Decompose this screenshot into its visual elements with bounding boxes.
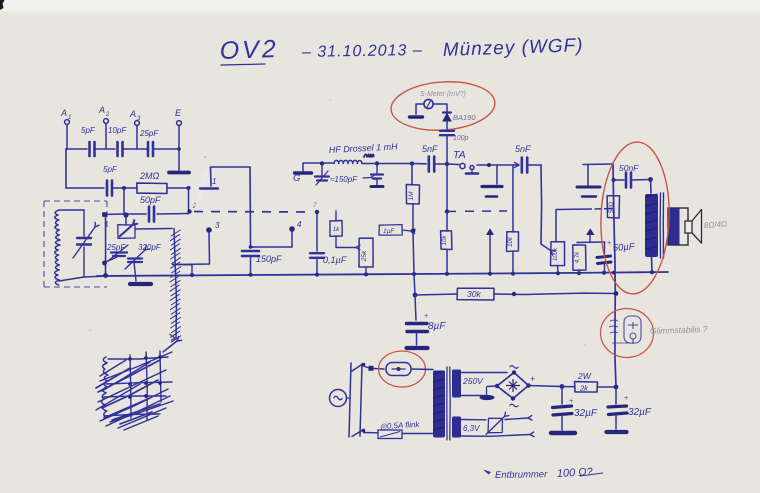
coupling 1uF slanted box (379, 225, 402, 236)
capacitor 5pF row2 (106, 181, 109, 196)
fuse Si1 (386, 363, 411, 376)
capacitor 50nF (614, 179, 625, 181)
svg-text:5pF: 5pF (81, 126, 96, 135)
svg-text:100p: 100p (453, 135, 469, 142)
speaker cone (692, 210, 702, 244)
svg-text:S-Meter (mV?): S-Meter (mV?) (420, 91, 466, 98)
grid cap contact triangle first (486, 228, 494, 235)
resistor 2M ohm (137, 183, 167, 193)
ground branch before 5nF2 (496, 165, 498, 184)
svg-text:TA: TA (453, 149, 466, 161)
contact 3 (206, 227, 212, 233)
B+ wire from bridge (529, 386, 563, 387)
red circle around fuse (379, 351, 426, 387)
wire to volume drop (528, 164, 542, 166)
wire row2 (66, 187, 104, 189)
coil construction sketch scribble (102, 357, 108, 417)
svg-text:1k: 1k (333, 226, 341, 233)
svg-text:2: 2 (105, 112, 110, 118)
svg-text:320pF: 320pF (138, 243, 162, 252)
main top wire to 5nF (362, 163, 412, 165)
switch blade bottom (352, 430, 364, 437)
svg-text:3: 3 (215, 221, 220, 230)
shield line foot arrow (170, 334, 176, 341)
capacitor 100p (440, 130, 454, 132)
hum pot (488, 418, 503, 433)
transformer core lines (659, 193, 661, 258)
wire A1 down (65, 149, 67, 188)
svg-text:≈150pF: ≈150pF (330, 175, 358, 184)
corner mark (0, 0, 5, 10)
wire (167, 187, 189, 189)
resistor 1k grid (335, 211, 337, 221)
wire 30k to B+ (494, 293, 616, 294)
wire row2-node to 50pF row (104, 213, 124, 216)
svg-text:5pF: 5pF (103, 165, 118, 174)
wire diode to cap (446, 121, 448, 129)
svg-text:150pF: 150pF (256, 254, 282, 264)
arrow 1k to 25k (335, 236, 337, 247)
resistor 1M anode (411, 164, 413, 185)
svg-text:25pF: 25pF (139, 129, 159, 138)
glow lamp squiggles (609, 320, 618, 333)
wire TA to right (477, 164, 519, 166)
grid cap contact triangle output (586, 228, 595, 235)
svg-text:8Ω/4Ω: 8Ω/4Ω (704, 219, 728, 230)
svg-text:32µF: 32µF (628, 407, 652, 418)
svg-text:5nF: 5nF (515, 144, 531, 154)
wire grid bus output (556, 208, 613, 211)
bridge rectifier (497, 373, 529, 399)
svg-text:A: A (98, 105, 105, 115)
svg-text:30k: 30k (467, 289, 481, 299)
dashed switch bus (194, 211, 313, 214)
capacitor to ground right of trimmer (376, 164, 378, 173)
resistor 50 ohm (607, 196, 619, 218)
capacitor 5pF A-row (88, 142, 91, 156)
arrow 1uF to anode node (402, 230, 411, 231)
svg-text:10pF: 10pF (108, 126, 127, 135)
ground under E (169, 171, 189, 175)
red circle around glow lamp (601, 309, 654, 358)
capacitor 150pF (242, 250, 259, 253)
svg-text:E: E (175, 108, 182, 118)
dashed bus end node (315, 210, 319, 214)
svg-text:Entbrummer: Entbrummer (495, 469, 548, 481)
primary bottom wire (651, 257, 654, 272)
detector arrow (120, 225, 134, 237)
speaker magnet (668, 208, 688, 245)
capacitor 5nF second (520, 158, 523, 173)
speaker throat (685, 221, 692, 233)
wire (95, 148, 116, 150)
svg-text:BA190: BA190 (453, 113, 476, 122)
PSU core lines (446, 367, 448, 440)
terminal E (177, 121, 182, 126)
wire to fuse (364, 366, 370, 368)
wire to E (153, 148, 179, 150)
svg-text:7: 7 (313, 202, 317, 209)
variable capacitor C-tune (77, 237, 91, 239)
contact 4 (289, 226, 295, 232)
hatched shield line (174, 229, 177, 339)
svg-text:2W: 2W (577, 371, 592, 381)
main top wire left (303, 162, 334, 164)
cathode bus wire (577, 241, 605, 244)
wire detector to shield line (135, 228, 172, 231)
secondary 250V winding (452, 370, 461, 398)
svg-text:2k: 2k (579, 384, 589, 393)
meter M1 (424, 99, 433, 108)
wire (123, 148, 148, 150)
svg-text:100k: 100k (553, 247, 559, 261)
wire fuse to transformer (411, 368, 433, 371)
svg-text:25pF: 25pF (106, 243, 126, 252)
wire anode to 30k (414, 274, 415, 295)
svg-text:4: 4 (297, 220, 302, 229)
scanner top strip (0, 0, 760, 13)
bridge inner diodes (506, 379, 520, 392)
resistor 10k screen (446, 164, 448, 211)
svg-text:Glimmstabilis ?: Glimmstabilis ? (650, 324, 708, 336)
wire 250V top to bridge (461, 372, 507, 374)
svg-text:+: + (424, 313, 428, 320)
svg-text:25k: 25k (361, 250, 368, 262)
B+ vertical wire (613, 164, 616, 387)
resistor 2k 2W (562, 386, 575, 388)
output transformer primary winding (650, 180, 653, 194)
sketch arrow to shield (163, 341, 177, 352)
svg-text:1: 1 (212, 177, 216, 186)
svg-text:100 Ω?: 100 Ω? (557, 466, 594, 480)
svg-text:50nF: 50nF (619, 163, 639, 173)
svg-text:32µF: 32µF (574, 408, 598, 419)
svg-text:A: A (60, 108, 67, 118)
arrowhead into 5nF2 (514, 162, 519, 168)
AC source circle (330, 390, 347, 407)
wire (157, 213, 189, 216)
svg-text:1M: 1M (408, 191, 415, 201)
capacitor 0.1uF (310, 252, 324, 254)
ground rail (97, 272, 668, 276)
wire pot top (555, 210, 557, 243)
capacitor 50uF cathode (604, 242, 606, 255)
pen slip mark (194, 172, 206, 216)
secondary 6.3V winding (452, 417, 461, 438)
wire meter right to diode (433, 104, 447, 112)
terminal A2 (104, 119, 109, 124)
resistor 30k (457, 288, 494, 300)
detector box (118, 225, 135, 239)
capacitor 50pF (148, 207, 151, 222)
svg-text:+: + (530, 374, 535, 384)
antenna row wire (66, 148, 87, 150)
main vertical from row2 to tank (105, 215, 107, 276)
capacitor 32uF first (561, 387, 563, 405)
svg-text:50µF: 50µF (612, 241, 636, 254)
svg-text:1µF: 1µF (383, 228, 395, 235)
ink scribble blob (364, 154, 374, 157)
svg-text:6,3V: 6,3V (463, 424, 480, 433)
wire (112, 187, 137, 189)
svg-text:5nF: 5nF (422, 144, 438, 154)
svg-text:+: + (607, 240, 611, 247)
bottom mains wire (364, 432, 379, 434)
wire left vertex to ground (487, 385, 497, 388)
capacitor 10pF (116, 142, 119, 156)
svg-text:250V: 250V (462, 376, 484, 386)
terminal A1 (65, 120, 70, 125)
capacitor 5nF first (427, 157, 430, 172)
resistor 4.7k cathode (573, 245, 586, 270)
transformer primary winding PSU (433, 371, 445, 438)
svg-text:1: 1 (68, 115, 71, 121)
svg-text:+: + (624, 395, 628, 402)
wire node7 down (316, 212, 318, 251)
red ellipse around output transformer (598, 141, 671, 295)
trimmer 150pF to ground (321, 164, 323, 175)
svg-text:50pF: 50pF (140, 195, 161, 205)
wire cap down to TA node (446, 136, 448, 164)
glow lamp sketch (624, 316, 641, 343)
tuner coil L1 (55, 210, 60, 285)
ground under 320pF (130, 282, 151, 286)
wire down to potentiometer (540, 165, 543, 244)
title OV2 underline (221, 64, 265, 65)
wire contact1 up and over (211, 167, 251, 186)
resistor 10k second stage (512, 165, 514, 232)
potentiometer 100k (551, 242, 565, 266)
svg-text:8µF: 8µF (428, 321, 446, 332)
svg-text:10k: 10k (442, 235, 448, 246)
tuner coil wires (59, 209, 84, 211)
capacitor 8uF (415, 295, 416, 320)
paper speckles (204, 156, 206, 158)
resistor 25k (359, 238, 373, 267)
svg-text:0,1µF: 0,1µF (323, 255, 347, 265)
wire down to detector rail (249, 167, 252, 246)
node 2 dot (187, 209, 191, 213)
dashed tuner box (44, 201, 107, 287)
terminal A3 (135, 121, 140, 126)
svg-text:4,7k: 4,7k (575, 251, 581, 263)
svg-text:+: + (569, 398, 573, 405)
arrow marker bottom note (483, 470, 491, 475)
switch contact 1 bar (200, 187, 218, 189)
svg-text:2MΩ: 2MΩ (139, 171, 160, 181)
contact3 wire to rail (191, 265, 193, 275)
red ellipse around S-Meter (389, 78, 496, 133)
capacitor 32uF second (615, 387, 617, 404)
capacitor 25pF (147, 142, 150, 156)
dashed wire grid2 (447, 210, 507, 213)
svg-text:A: A (129, 109, 136, 119)
wire 250V bottom to ground (461, 395, 484, 397)
arrow to cap2 (363, 177, 371, 180)
svg-text:10k: 10k (508, 236, 514, 247)
diode D1 BA190 (443, 114, 451, 122)
node above detector (123, 212, 128, 217)
switch blade top (352, 364, 364, 372)
right top wire segment (583, 163, 613, 166)
parallel 50pF branch (123, 188, 125, 214)
mains plug outline (349, 363, 351, 437)
ground under meter (410, 115, 423, 118)
svg-text:OV2: OV2 (219, 35, 279, 65)
wire meter left to ground (416, 104, 424, 114)
svg-text:– 31.10.2013 –: – 31.10.2013 – (301, 42, 423, 61)
ground cap branch x588 (587, 165, 589, 186)
wire tank to node (84, 276, 106, 277)
svg-text:50Ω: 50Ω (609, 201, 615, 213)
